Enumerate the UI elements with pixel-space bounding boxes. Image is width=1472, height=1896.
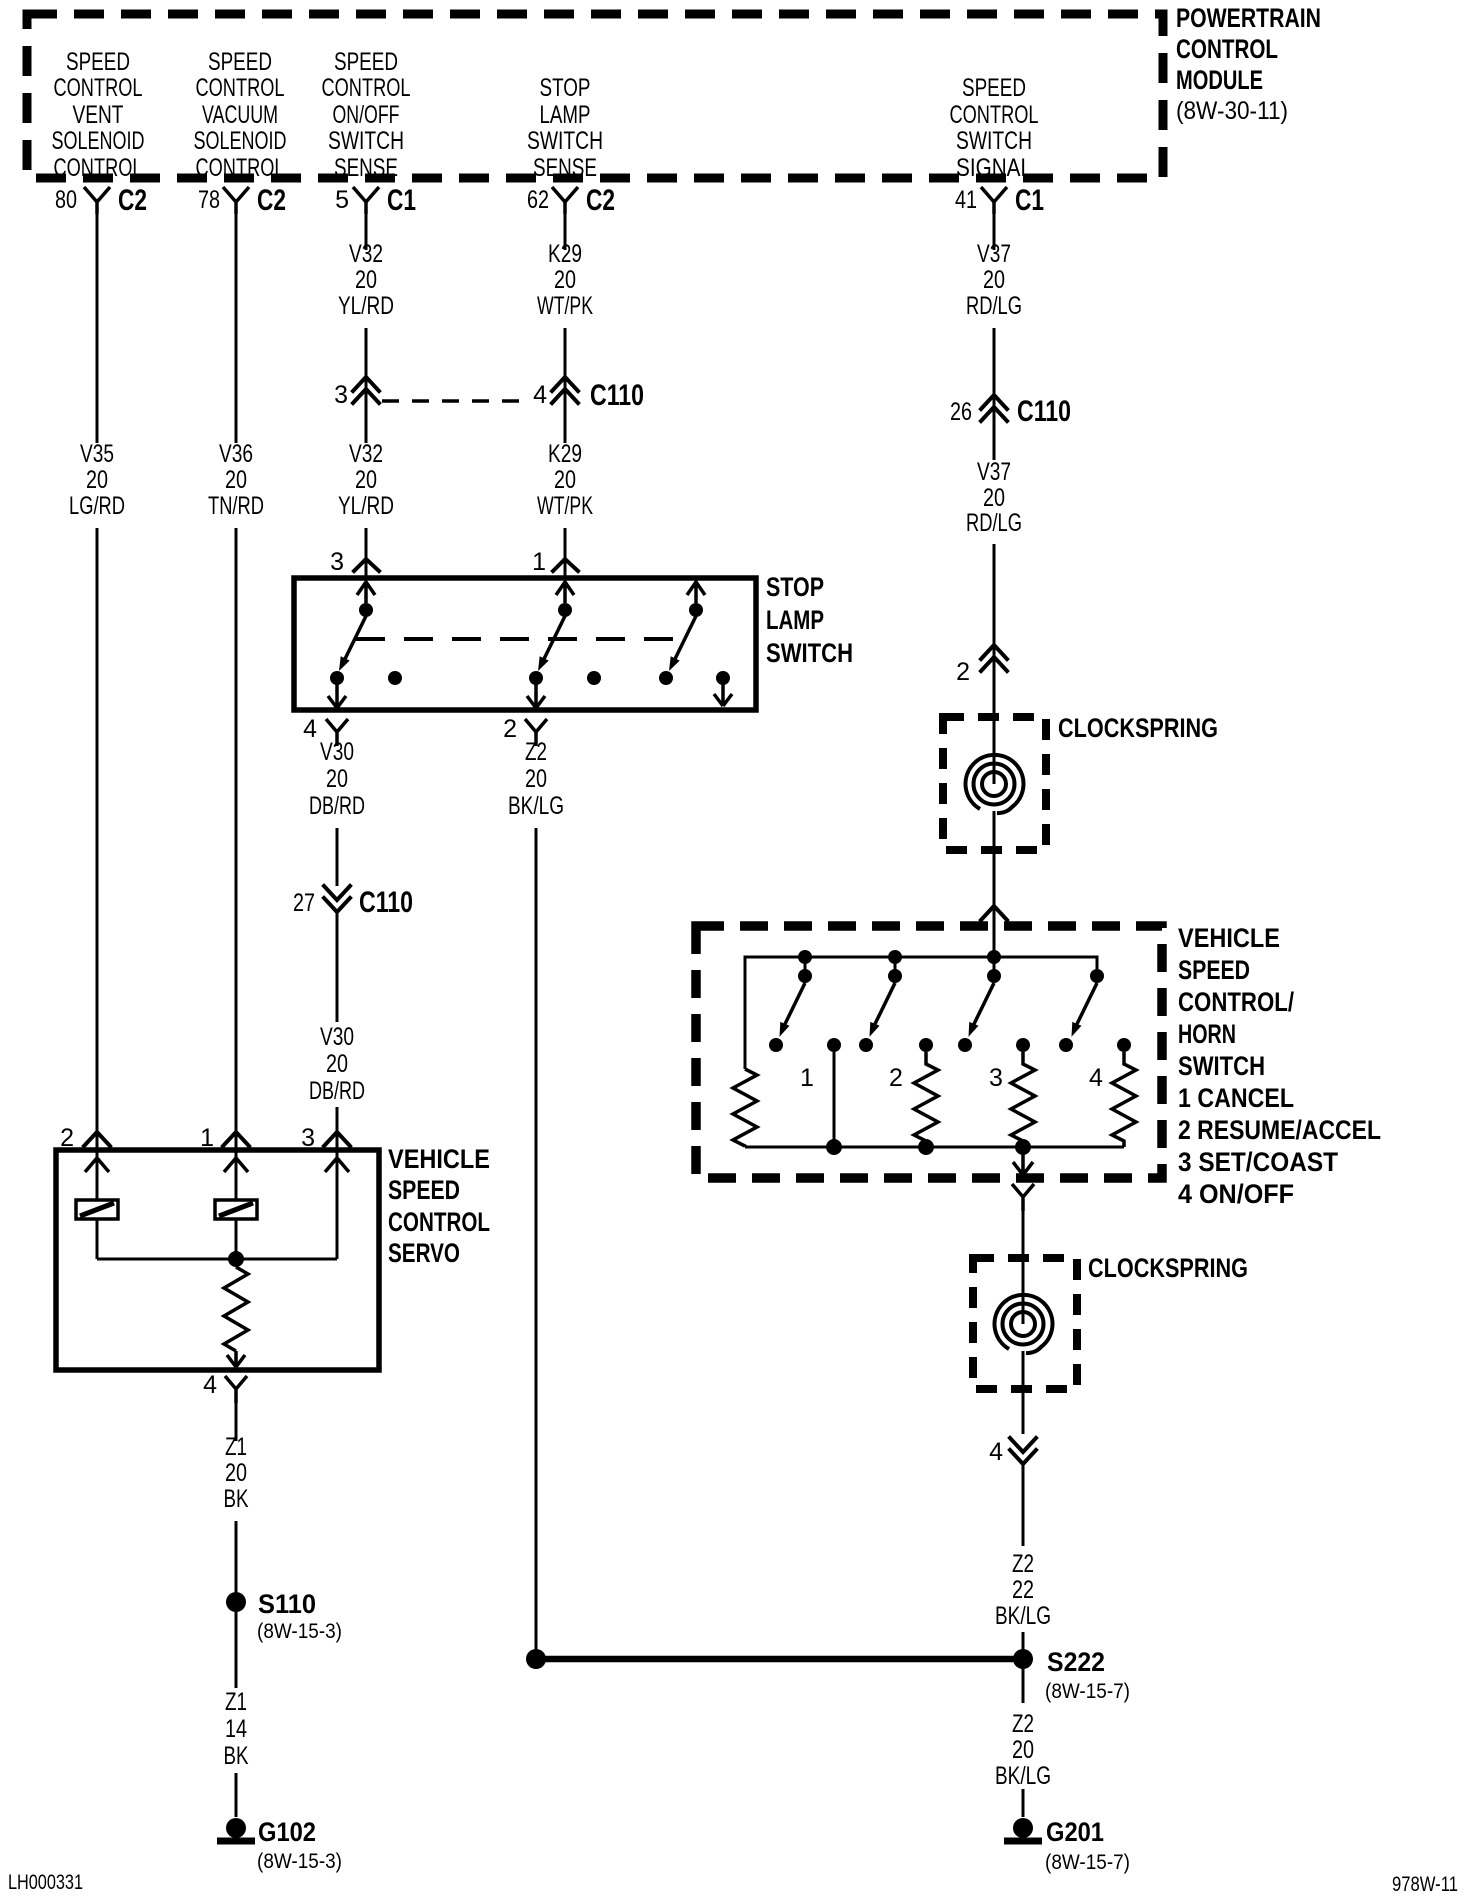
node S1 lower contact 3 xyxy=(659,671,673,685)
svg-text:C110: C110 xyxy=(590,379,644,412)
svg-text:CLOCKSPRING: CLOCKSPRING xyxy=(1058,713,1218,743)
resistor S2 R1 xyxy=(733,1069,757,1147)
node S1 lower contact 1 xyxy=(330,671,344,685)
svg-text:SPEED: SPEED xyxy=(1178,955,1250,985)
switch S1 contact 3 exit arrow xyxy=(714,684,732,706)
svg-text:978W-11: 978W-11 xyxy=(1392,1873,1458,1896)
wire K29 segment 2 xyxy=(564,328,567,443)
svg-text:V35: V35 xyxy=(80,440,114,468)
switch S2 exit arrow xyxy=(1013,1147,1033,1175)
svg-text:VEHICLE: VEHICLE xyxy=(1178,923,1280,953)
svg-text:SERVO: SERVO xyxy=(388,1238,460,1268)
label pin62 function STOP LAMP SWITCH SENSE xyxy=(527,74,603,182)
wire V32 segment 1 xyxy=(365,214,368,250)
connector C110 pin 27 xyxy=(293,886,413,919)
svg-text:CONTROL: CONTROL xyxy=(1176,34,1278,64)
switch S1 stop lamp switch box xyxy=(294,578,756,710)
wire to clockspring 2 xyxy=(1022,1211,1025,1258)
switch S1 arm 1 xyxy=(339,616,366,671)
svg-text:VEHICLE: VEHICLE xyxy=(388,1144,490,1174)
svg-text:4: 4 xyxy=(303,715,317,743)
ground G201 xyxy=(1004,1817,1130,1874)
svg-text:Z2: Z2 xyxy=(1012,1710,1034,1738)
svg-text:(8W-30-11): (8W-30-11) xyxy=(1176,97,1288,125)
svg-text:SOLENOID: SOLENOID xyxy=(52,127,145,155)
svg-text:MODULE: MODULE xyxy=(1176,65,1263,95)
svg-text:V36: V36 xyxy=(219,440,253,468)
svg-text:C110: C110 xyxy=(359,886,413,919)
svg-text:62: 62 xyxy=(527,186,549,214)
wire Z1 segment 3 xyxy=(235,1773,238,1817)
svg-text:2: 2 xyxy=(956,658,970,686)
svg-text:1 CANCEL: 1 CANCEL xyxy=(1178,1083,1294,1113)
wire solenoid 2 to bus xyxy=(235,1219,238,1259)
switch S1 contact 2 upper arrow xyxy=(556,582,574,603)
solenoid L1 vent xyxy=(76,1200,118,1219)
node S2 bus junction sw2 xyxy=(888,950,902,964)
label clockspring 1 name xyxy=(1058,713,1218,743)
svg-text:V30: V30 xyxy=(320,738,354,766)
wire Z2 20 stub below S222 xyxy=(1022,1669,1025,1703)
label speed control switch name and positions xyxy=(1178,923,1381,1209)
svg-text:YL/RD: YL/RD xyxy=(338,292,394,320)
wire S2 top bus xyxy=(745,957,1097,1069)
wire into clockspring 1 xyxy=(993,717,996,784)
svg-text:ON/OFF: ON/OFF xyxy=(333,101,400,129)
connector C2 pin 78 xyxy=(198,184,286,217)
svg-text:V37: V37 xyxy=(977,458,1011,486)
label PCM name POWERTRAIN CONTROL MODULE (8W-30-11) xyxy=(1176,3,1321,125)
connector servo pin 4 xyxy=(203,1371,247,1403)
switch S2 arm 3 xyxy=(969,983,995,1037)
servo exit arrow to pin 4 xyxy=(227,1351,245,1367)
wire into clockspring 2 xyxy=(1022,1258,1025,1324)
wire Z2 long vertical segment xyxy=(535,828,538,1659)
connector servo pin 2 xyxy=(60,1124,110,1152)
svg-text:80: 80 xyxy=(55,186,77,214)
connector servo pin 1 xyxy=(200,1124,249,1152)
svg-text:BK/LG: BK/LG xyxy=(995,1762,1051,1790)
svg-text:3: 3 xyxy=(989,1064,1003,1092)
svg-text:41: 41 xyxy=(955,186,977,214)
label servo name xyxy=(388,1144,490,1268)
switch S1 mechanical linkage dashed xyxy=(356,637,681,641)
wire V37 segment 2 xyxy=(993,328,996,460)
label sheet id 978W-11 xyxy=(1392,1873,1458,1896)
label wire Z1 20 BK xyxy=(224,1433,249,1513)
node S2 bottom junction 1 xyxy=(826,1139,842,1155)
svg-text:YL/RD: YL/RD xyxy=(338,492,394,520)
svg-text:LAMP: LAMP xyxy=(766,605,824,635)
switch S1 arm 2 xyxy=(538,616,565,671)
svg-text:2: 2 xyxy=(889,1064,903,1092)
wire Z2 stub above S222 xyxy=(1022,1632,1025,1650)
connector servo pin 3 xyxy=(301,1124,350,1152)
svg-text:WT/PK: WT/PK xyxy=(537,292,593,320)
wire K29 segment 1 xyxy=(564,214,567,250)
switch S1 arm 3 xyxy=(669,616,696,671)
svg-text:LAMP: LAMP xyxy=(540,101,591,129)
svg-text:SOLENOID: SOLENOID xyxy=(194,127,287,155)
switch S1 contact 3 upper arrow xyxy=(687,582,705,603)
svg-text:SWITCH: SWITCH xyxy=(328,127,404,155)
svg-text:STOP: STOP xyxy=(766,572,824,602)
svg-text:C110: C110 xyxy=(1017,395,1071,428)
wire Z2 stub above G201 xyxy=(1022,1789,1025,1817)
component clockspring 1 dashed box xyxy=(943,717,1046,850)
wire V35 upper segment xyxy=(96,214,99,443)
svg-text:20: 20 xyxy=(225,466,247,494)
wire V30 segment 2 xyxy=(336,912,339,1022)
svg-text:C2: C2 xyxy=(586,184,615,217)
svg-text:K29: K29 xyxy=(548,440,582,468)
node S1 aux contact 1 xyxy=(388,671,402,685)
svg-text:22: 22 xyxy=(1012,1576,1034,1604)
svg-text:20: 20 xyxy=(983,266,1005,294)
resistor S2 R3 xyxy=(1011,1052,1035,1147)
svg-text:CONTROL: CONTROL xyxy=(322,74,411,102)
svg-text:CONTROL: CONTROL xyxy=(388,1207,490,1237)
connector C1 pin 41 xyxy=(955,184,1044,217)
node S1 aux contact 3 xyxy=(716,671,730,685)
svg-text:G201: G201 xyxy=(1046,1817,1104,1847)
label wire K29 20 WT/PK upper xyxy=(537,240,593,320)
svg-text:C2: C2 xyxy=(118,184,147,217)
switch S1 contact 2 exit arrow xyxy=(527,684,545,708)
svg-text:20: 20 xyxy=(326,1050,348,1078)
svg-text:2 RESUME/ACCEL: 2 RESUME/ACCEL xyxy=(1178,1115,1381,1145)
svg-text:14: 14 xyxy=(225,1715,247,1743)
svg-text:4: 4 xyxy=(989,1438,1003,1466)
svg-text:DB/RD: DB/RD xyxy=(309,1077,365,1105)
connector clockspring pin 2 xyxy=(956,645,1007,686)
label pin78 function SPEED CONTROL VACUUM SOLENOID CONTROL xyxy=(194,48,287,182)
svg-text:C2: C2 xyxy=(257,184,286,217)
svg-text:20: 20 xyxy=(225,1459,247,1487)
wire V35 lower segment xyxy=(96,528,99,1150)
switch S2 arm 4 xyxy=(1072,983,1098,1037)
svg-text:4 ON/OFF: 4 ON/OFF xyxy=(1178,1179,1294,1209)
node S2 bottom junction 2 xyxy=(918,1139,934,1155)
svg-text:SENSE: SENSE xyxy=(334,154,398,182)
label S2 position 4 xyxy=(1089,1064,1103,1092)
svg-text:DB/RD: DB/RD xyxy=(309,792,365,820)
svg-text:78: 78 xyxy=(198,186,220,214)
clockspring 2 coil spiral xyxy=(994,1295,1052,1353)
svg-text:G102: G102 xyxy=(258,1817,316,1847)
svg-text:4: 4 xyxy=(533,381,547,409)
connector stop lamp switch pin 2 xyxy=(503,715,547,746)
wire V30 segment 1 xyxy=(336,828,339,886)
label wire Z1 14 BK xyxy=(224,1688,249,1770)
svg-text:20: 20 xyxy=(983,484,1005,512)
servo pin 3 entry chevron xyxy=(325,1158,349,1172)
label wire Z2 20 BK/LG xyxy=(508,738,564,820)
wire servo pin1 to solenoid 2 xyxy=(235,1150,238,1200)
svg-text:SPEED: SPEED xyxy=(334,48,398,76)
svg-text:RD/LG: RD/LG xyxy=(966,292,1022,320)
svg-text:VACUUM: VACUUM xyxy=(202,101,278,129)
wire K29 segment 3 xyxy=(564,528,567,578)
svg-text:SPEED: SPEED xyxy=(208,48,272,76)
wire servo internal bus xyxy=(97,1258,337,1261)
label wire V36 20 TN/RD xyxy=(208,440,264,520)
svg-text:(8W-15-3): (8W-15-3) xyxy=(257,1850,342,1873)
switch S2 pole 3 upper contact xyxy=(987,957,1001,983)
solenoid L2 vacuum xyxy=(215,1200,257,1219)
svg-text:3: 3 xyxy=(330,548,344,576)
switch S2 vehicle speed control/horn switch dashed box xyxy=(696,926,1162,1178)
node S2 bottom junction 3 xyxy=(1015,1139,1031,1155)
svg-text:STOP: STOP xyxy=(540,74,591,102)
svg-text:SWITCH: SWITCH xyxy=(766,638,853,668)
wire out of clockspring 1 xyxy=(993,811,996,926)
svg-text:4: 4 xyxy=(1089,1064,1103,1092)
svg-text:C1: C1 xyxy=(1015,184,1044,217)
svg-text:SWITCH: SWITCH xyxy=(1178,1051,1265,1081)
node S2 lower contact 3 xyxy=(958,1038,972,1052)
svg-text:20: 20 xyxy=(86,466,108,494)
label pin5 function SPEED CONTROL ON/OFF SWITCH SENSE xyxy=(322,48,411,182)
wire servo pin2 to solenoid 1 xyxy=(96,1150,99,1200)
connector C2 pin 80 xyxy=(55,184,147,217)
node S2 lower contact 1 xyxy=(769,1038,783,1052)
svg-text:POWERTRAIN: POWERTRAIN xyxy=(1176,3,1321,33)
svg-text:BK/LG: BK/LG xyxy=(508,792,564,820)
wire V36 lower segment xyxy=(235,528,238,1150)
connector C110 pin 3 xyxy=(334,377,379,409)
connector stop lamp switch pin 4 xyxy=(303,715,348,746)
svg-text:VENT: VENT xyxy=(73,101,124,129)
svg-text:27: 27 xyxy=(293,889,315,917)
svg-text:3 SET/COAST: 3 SET/COAST xyxy=(1178,1147,1338,1177)
svg-text:Z1: Z1 xyxy=(225,1433,247,1461)
servo pin 2 entry chevron xyxy=(85,1158,109,1172)
label S2 position 1 xyxy=(800,1064,814,1092)
node S2 resistor top 1 xyxy=(827,1038,841,1052)
wire servo pin3 down xyxy=(336,1150,339,1259)
switch S2 arm 1 xyxy=(780,983,806,1037)
label pin80 function SPEED CONTROL VENT SOLENOID CONTROL xyxy=(52,48,145,182)
label pin41 function SPEED CONTROL SWITCH SIGNAL xyxy=(950,74,1039,182)
label wire V35 20 LG/RD xyxy=(69,440,125,520)
svg-text:V32: V32 xyxy=(349,240,383,268)
switch S2 arm 2 xyxy=(870,983,896,1037)
svg-text:CONTROL: CONTROL xyxy=(54,74,143,102)
clockspring 1 coil spiral xyxy=(965,755,1023,813)
switch S2 pole 1 upper contact xyxy=(798,957,812,983)
svg-text:CONTROL: CONTROL xyxy=(196,74,285,102)
wire solenoid 1 to bus xyxy=(96,1219,99,1259)
wire out of clockspring 2 xyxy=(1022,1351,1025,1434)
label wire Z2 22 BK/LG xyxy=(995,1550,1051,1630)
label wire V32 20 YL/RD lower xyxy=(338,440,394,520)
svg-text:WT/PK: WT/PK xyxy=(537,492,593,520)
node S2 resistor top 3 xyxy=(1016,1038,1030,1052)
wire S2 column 2 xyxy=(833,1052,836,1147)
splice S222 xyxy=(1013,1647,1130,1703)
svg-text:5: 5 xyxy=(335,186,349,214)
connector speed control switch exit pin xyxy=(1012,1184,1034,1211)
svg-text:(8W-15-3): (8W-15-3) xyxy=(257,1620,342,1643)
svg-text:CONTROL: CONTROL xyxy=(196,154,285,182)
node S1 upper contact 3 xyxy=(689,603,703,617)
switch S2 pole 4 upper contact xyxy=(1090,969,1104,983)
svg-text:SENSE: SENSE xyxy=(533,154,597,182)
svg-text:Z1: Z1 xyxy=(225,1688,247,1716)
wire dashed link C110 pins 3-4 xyxy=(382,399,526,403)
svg-text:(8W-15-7): (8W-15-7) xyxy=(1045,1851,1130,1874)
wire V30 segment 3 xyxy=(336,1107,339,1150)
svg-text:S222: S222 xyxy=(1047,1647,1105,1677)
connector clockspring pin 4 xyxy=(989,1438,1036,1466)
connector stop lamp switch pin 3 xyxy=(330,548,379,576)
svg-text:20: 20 xyxy=(355,466,377,494)
svg-text:CONTROL: CONTROL xyxy=(54,154,143,182)
node S2 bus junction sw1 xyxy=(798,950,812,964)
label clockspring 2 name xyxy=(1088,1253,1248,1283)
svg-text:SPEED: SPEED xyxy=(388,1175,460,1205)
svg-text:20: 20 xyxy=(554,266,576,294)
connector C2 pin 62 xyxy=(527,184,615,217)
svg-text:BK: BK xyxy=(224,1485,249,1513)
svg-text:SPEED: SPEED xyxy=(66,48,130,76)
svg-text:LH000331: LH000331 xyxy=(8,1871,83,1894)
node S2 lower contact 4 xyxy=(1059,1038,1073,1052)
connector C1 pin 5 xyxy=(335,184,416,217)
resistor servo R xyxy=(224,1267,248,1351)
wire Z2 22 segment xyxy=(1022,1464,1025,1546)
svg-text:V30: V30 xyxy=(320,1023,354,1051)
node S1 aux contact 2 xyxy=(587,671,601,685)
label wire V37 20 RD/LG lower xyxy=(966,458,1022,537)
label wire V30 20 DB/RD upper xyxy=(309,738,365,820)
switch S1 contact 1 upper arrow xyxy=(357,582,375,603)
module U1 powertrain control module dashed box xyxy=(27,14,1163,178)
label wire V30 20 DB/RD lower xyxy=(309,1023,365,1105)
svg-text:SWITCH: SWITCH xyxy=(956,127,1032,155)
svg-text:SPEED: SPEED xyxy=(962,74,1026,102)
switch S2 pole 2 upper contact xyxy=(888,957,902,983)
svg-text:SWITCH: SWITCH xyxy=(527,127,603,155)
label wire V37 20 RD/LG upper xyxy=(966,240,1022,320)
component clockspring 2 dashed box xyxy=(973,1258,1077,1389)
wire Z1 segment 1 xyxy=(235,1521,238,1593)
wire V32 segment 3 xyxy=(365,528,368,578)
svg-text:V37: V37 xyxy=(977,240,1011,268)
node S1 upper contact 1 xyxy=(359,603,373,617)
node S1 lower contact 2 xyxy=(529,671,543,685)
node S1 upper contact 2 xyxy=(558,603,572,617)
svg-text:HORN: HORN xyxy=(1178,1019,1236,1049)
wire S2 entry to top bus xyxy=(993,926,996,957)
label sheet id LH000331 xyxy=(8,1871,83,1894)
node S2 lower contact 2 xyxy=(859,1038,873,1052)
svg-text:LG/RD: LG/RD xyxy=(69,492,125,520)
node S2 resistor top 2 xyxy=(919,1038,933,1052)
servo pin 1 entry chevron xyxy=(224,1158,248,1172)
resistor S2 R4 xyxy=(1112,1052,1136,1147)
svg-text:S110: S110 xyxy=(258,1589,316,1619)
connector speed control switch entry chevron xyxy=(981,906,1007,920)
svg-text:20: 20 xyxy=(1012,1736,1034,1764)
wire S2 bottom bus xyxy=(745,1146,1124,1149)
node servo bus junction xyxy=(228,1251,244,1267)
svg-text:20: 20 xyxy=(355,266,377,294)
svg-text:BK/LG: BK/LG xyxy=(995,1602,1051,1630)
svg-text:3: 3 xyxy=(334,381,348,409)
connector C110 pin 26 xyxy=(950,395,1071,428)
svg-text:SIGNAL: SIGNAL xyxy=(956,154,1032,182)
wire Z1 segment 2 xyxy=(235,1612,238,1688)
svg-text:CONTROL/: CONTROL/ xyxy=(1178,987,1294,1017)
label wire K29 20 WT/PK lower xyxy=(537,440,593,520)
ground G102 xyxy=(217,1817,342,1873)
svg-text:20: 20 xyxy=(554,466,576,494)
svg-text:2: 2 xyxy=(503,715,517,743)
svg-text:1: 1 xyxy=(532,548,546,576)
svg-text:TN/RD: TN/RD xyxy=(208,492,264,520)
wire V32 segment 2 xyxy=(365,328,368,443)
label wire V32 20 YL/RD upper xyxy=(338,240,394,320)
label S2 position 3 xyxy=(989,1064,1003,1092)
node S2 resistor top 4 xyxy=(1117,1038,1131,1052)
wire V37 segment 1 xyxy=(993,214,996,250)
svg-text:1: 1 xyxy=(800,1064,814,1092)
svg-text:20: 20 xyxy=(326,765,348,793)
svg-text:(8W-15-7): (8W-15-7) xyxy=(1045,1680,1130,1703)
svg-text:Z2: Z2 xyxy=(525,738,547,766)
svg-text:K29: K29 xyxy=(548,240,582,268)
svg-text:CONTROL: CONTROL xyxy=(950,101,1039,129)
svg-text:V32: V32 xyxy=(349,440,383,468)
wire V37 segment 3 xyxy=(993,544,996,717)
component M1 vehicle speed control servo box xyxy=(56,1150,379,1370)
connector stop lamp switch pin 1 xyxy=(532,548,578,576)
splice S110 xyxy=(226,1589,342,1643)
wire Z1 stub below servo xyxy=(235,1403,238,1441)
label S2 position 2 xyxy=(889,1064,903,1092)
label wire Z2 20 BK/LG xyxy=(995,1710,1051,1790)
svg-text:Z2: Z2 xyxy=(1012,1550,1034,1578)
svg-text:26: 26 xyxy=(950,398,972,426)
wire V36 upper segment xyxy=(235,214,238,443)
node junction Z2 xyxy=(526,1649,546,1669)
svg-text:C1: C1 xyxy=(387,184,416,217)
wire Z2 horizontal segment to S222 xyxy=(544,1656,1014,1663)
switch S1 contact 1 exit arrow xyxy=(328,684,346,708)
resistor S2 R2 xyxy=(914,1052,938,1147)
svg-text:4: 4 xyxy=(203,1371,217,1399)
svg-text:RD/LG: RD/LG xyxy=(966,509,1022,537)
connector C110 pin 4 xyxy=(533,377,644,412)
label stop lamp switch name xyxy=(766,572,853,668)
node S2 bus junction sw3 xyxy=(987,950,1001,964)
svg-text:BK: BK xyxy=(224,1742,249,1770)
svg-text:20: 20 xyxy=(525,765,547,793)
svg-text:CLOCKSPRING: CLOCKSPRING xyxy=(1088,1253,1248,1283)
